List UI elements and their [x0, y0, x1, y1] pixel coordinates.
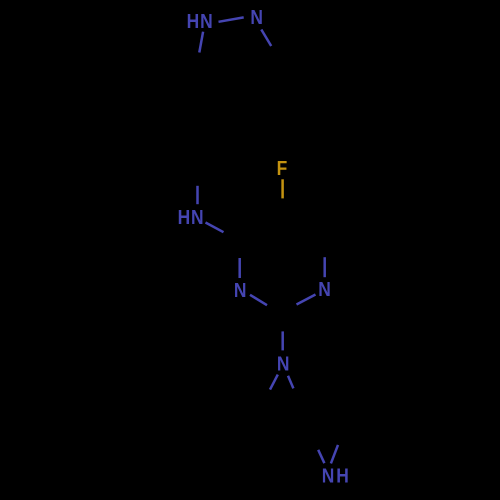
svg-text:N: N: [250, 7, 263, 30]
svg-text:N: N: [277, 353, 290, 376]
svg-text:N: N: [318, 279, 331, 302]
svg-text:HN: HN: [178, 207, 205, 230]
svg-text:F: F: [277, 158, 288, 181]
svg-text:NH: NH: [322, 465, 351, 488]
svg-text:HN: HN: [187, 11, 214, 34]
svg-text:N: N: [234, 280, 247, 303]
